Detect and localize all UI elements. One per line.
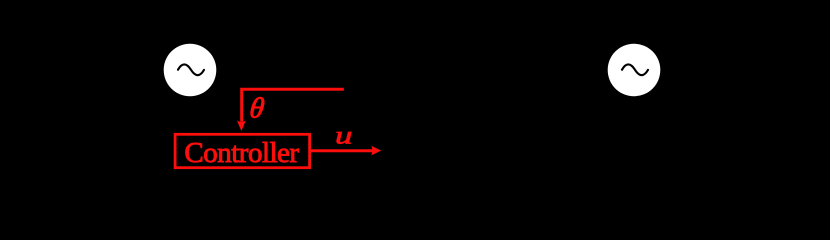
- node label theta: [248, 93, 266, 125]
- wire: theta feedback tap (horizontal segment then down toward controller): [242, 89, 344, 121]
- AC source V2 (right sinusoidal voltage source): [608, 44, 661, 97]
- svg-text:Controller: Controller: [184, 137, 299, 169]
- arrowhead theta into controller: [237, 121, 246, 131]
- controller U1 box: [175, 134, 310, 167]
- node label u: [335, 121, 352, 149]
- arrowhead u output: [371, 146, 381, 156]
- svg-text:u: u: [335, 121, 352, 149]
- AC source V1 (left sinusoidal voltage source): [164, 44, 217, 97]
- wire: u output line: [310, 149, 373, 152]
